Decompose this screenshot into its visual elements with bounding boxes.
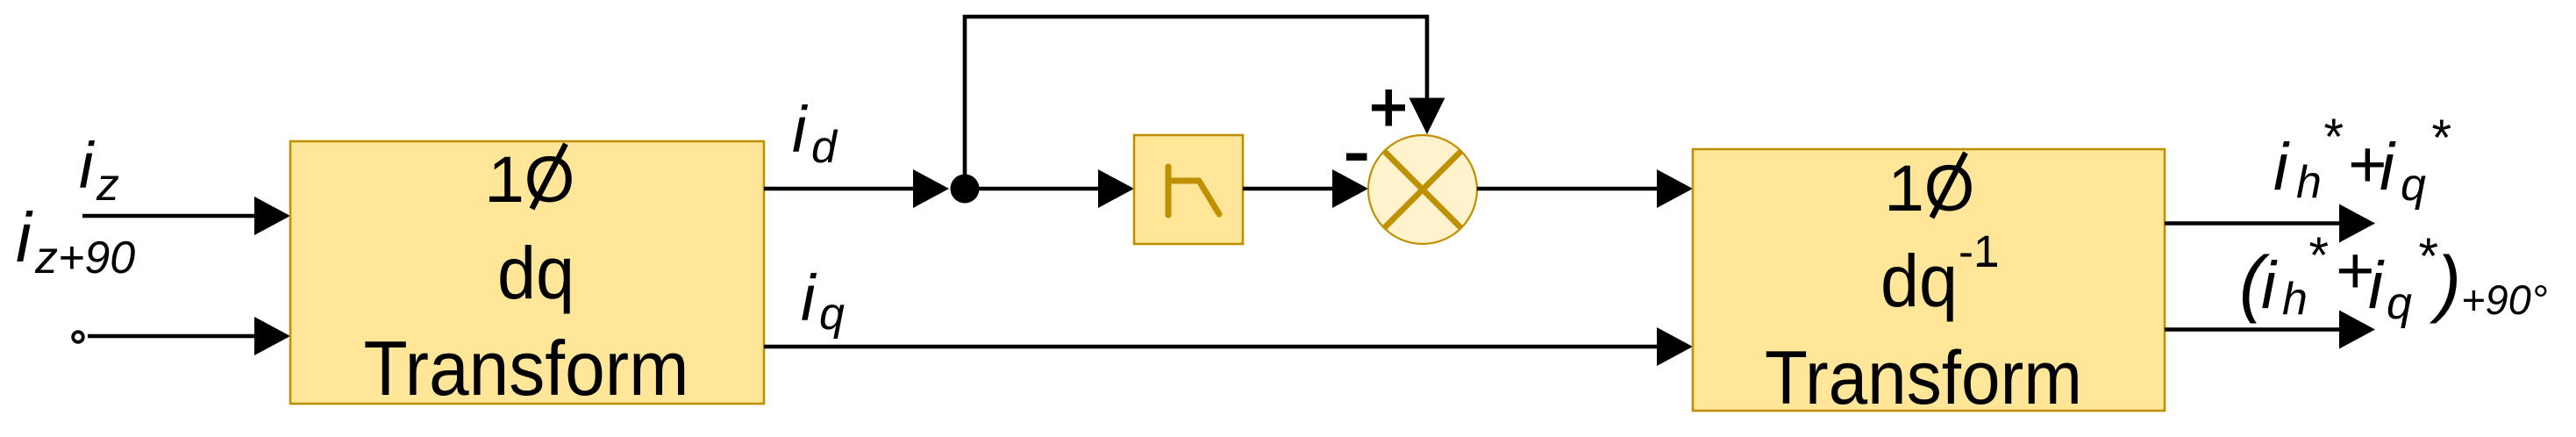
block U2: 1-phase dq-1 inverse Transform bbox=[1693, 149, 2165, 420]
svg-text:i: i bbox=[2261, 248, 2278, 323]
svg-text:i: i bbox=[2273, 130, 2290, 204]
svg-text:z: z bbox=[96, 160, 119, 211]
wire output 1 bbox=[2165, 204, 2375, 243]
label minus sign at summer bbox=[1346, 154, 1367, 161]
label (ih*+iq*)+90deg (output 2) bbox=[2239, 227, 2548, 329]
svg-text:-1: -1 bbox=[1959, 226, 1998, 276]
svg-text:h: h bbox=[2296, 157, 2322, 208]
block U1: 1-phase dq Transform bbox=[290, 141, 764, 412]
wire input 2 into dq transform bbox=[88, 317, 290, 355]
svg-text:dq: dq bbox=[497, 232, 574, 314]
wire summer to dq inverse transform bbox=[1477, 169, 1693, 208]
wire node A to low-pass filter bbox=[965, 169, 1134, 208]
svg-text:h: h bbox=[2282, 274, 2308, 325]
degree symbol input 2 bbox=[73, 332, 83, 342]
label iq (q-axis path) bbox=[801, 261, 845, 340]
wire low-pass filter to summer minus input bbox=[1243, 169, 1368, 208]
svg-text:q: q bbox=[2401, 160, 2426, 211]
wire iq from dq transform to dq inverse transform bbox=[764, 327, 1693, 366]
label ih*+iq* (output 1) bbox=[2273, 109, 2451, 211]
svg-text:z+90: z+90 bbox=[34, 233, 135, 283]
wire feedback: node A up, across, down into summer plus input bbox=[965, 17, 1445, 184]
svg-text:i: i bbox=[792, 93, 809, 166]
svg-text:dq: dq bbox=[1880, 240, 1958, 322]
svg-text:*: * bbox=[2416, 228, 2438, 285]
svg-text:i: i bbox=[2368, 248, 2385, 323]
svg-text:i: i bbox=[79, 129, 96, 202]
svg-text:*: * bbox=[2430, 110, 2451, 167]
svg-text:i: i bbox=[801, 261, 817, 334]
svg-text:d: d bbox=[811, 122, 838, 173]
block F1: low-pass filter bbox=[1134, 135, 1243, 244]
node A (branch dot) bbox=[951, 175, 980, 204]
wire output 2 bbox=[2165, 311, 2375, 349]
label iz+90 (input 2) bbox=[16, 198, 135, 283]
svg-text:q: q bbox=[2387, 278, 2412, 329]
svg-text:+90°: +90° bbox=[2461, 276, 2548, 323]
label plus sign at summer bbox=[1372, 90, 1405, 126]
svg-text:Transform: Transform bbox=[1765, 336, 2082, 420]
wire id from dq transform to node A bbox=[764, 169, 949, 208]
label id (d-axis output) bbox=[792, 93, 838, 173]
svg-text:Transform: Transform bbox=[364, 325, 689, 412]
svg-text:q: q bbox=[819, 289, 845, 340]
label iz (input 1) bbox=[79, 129, 119, 211]
svg-text:*: * bbox=[2322, 109, 2344, 166]
svg-text:i: i bbox=[2380, 130, 2396, 204]
svg-text:*: * bbox=[2307, 227, 2329, 284]
summer S1 (multiplier circle with X) bbox=[1368, 135, 1477, 244]
svg-text:i: i bbox=[16, 198, 33, 276]
wire input 1 into dq transform bbox=[82, 197, 290, 235]
